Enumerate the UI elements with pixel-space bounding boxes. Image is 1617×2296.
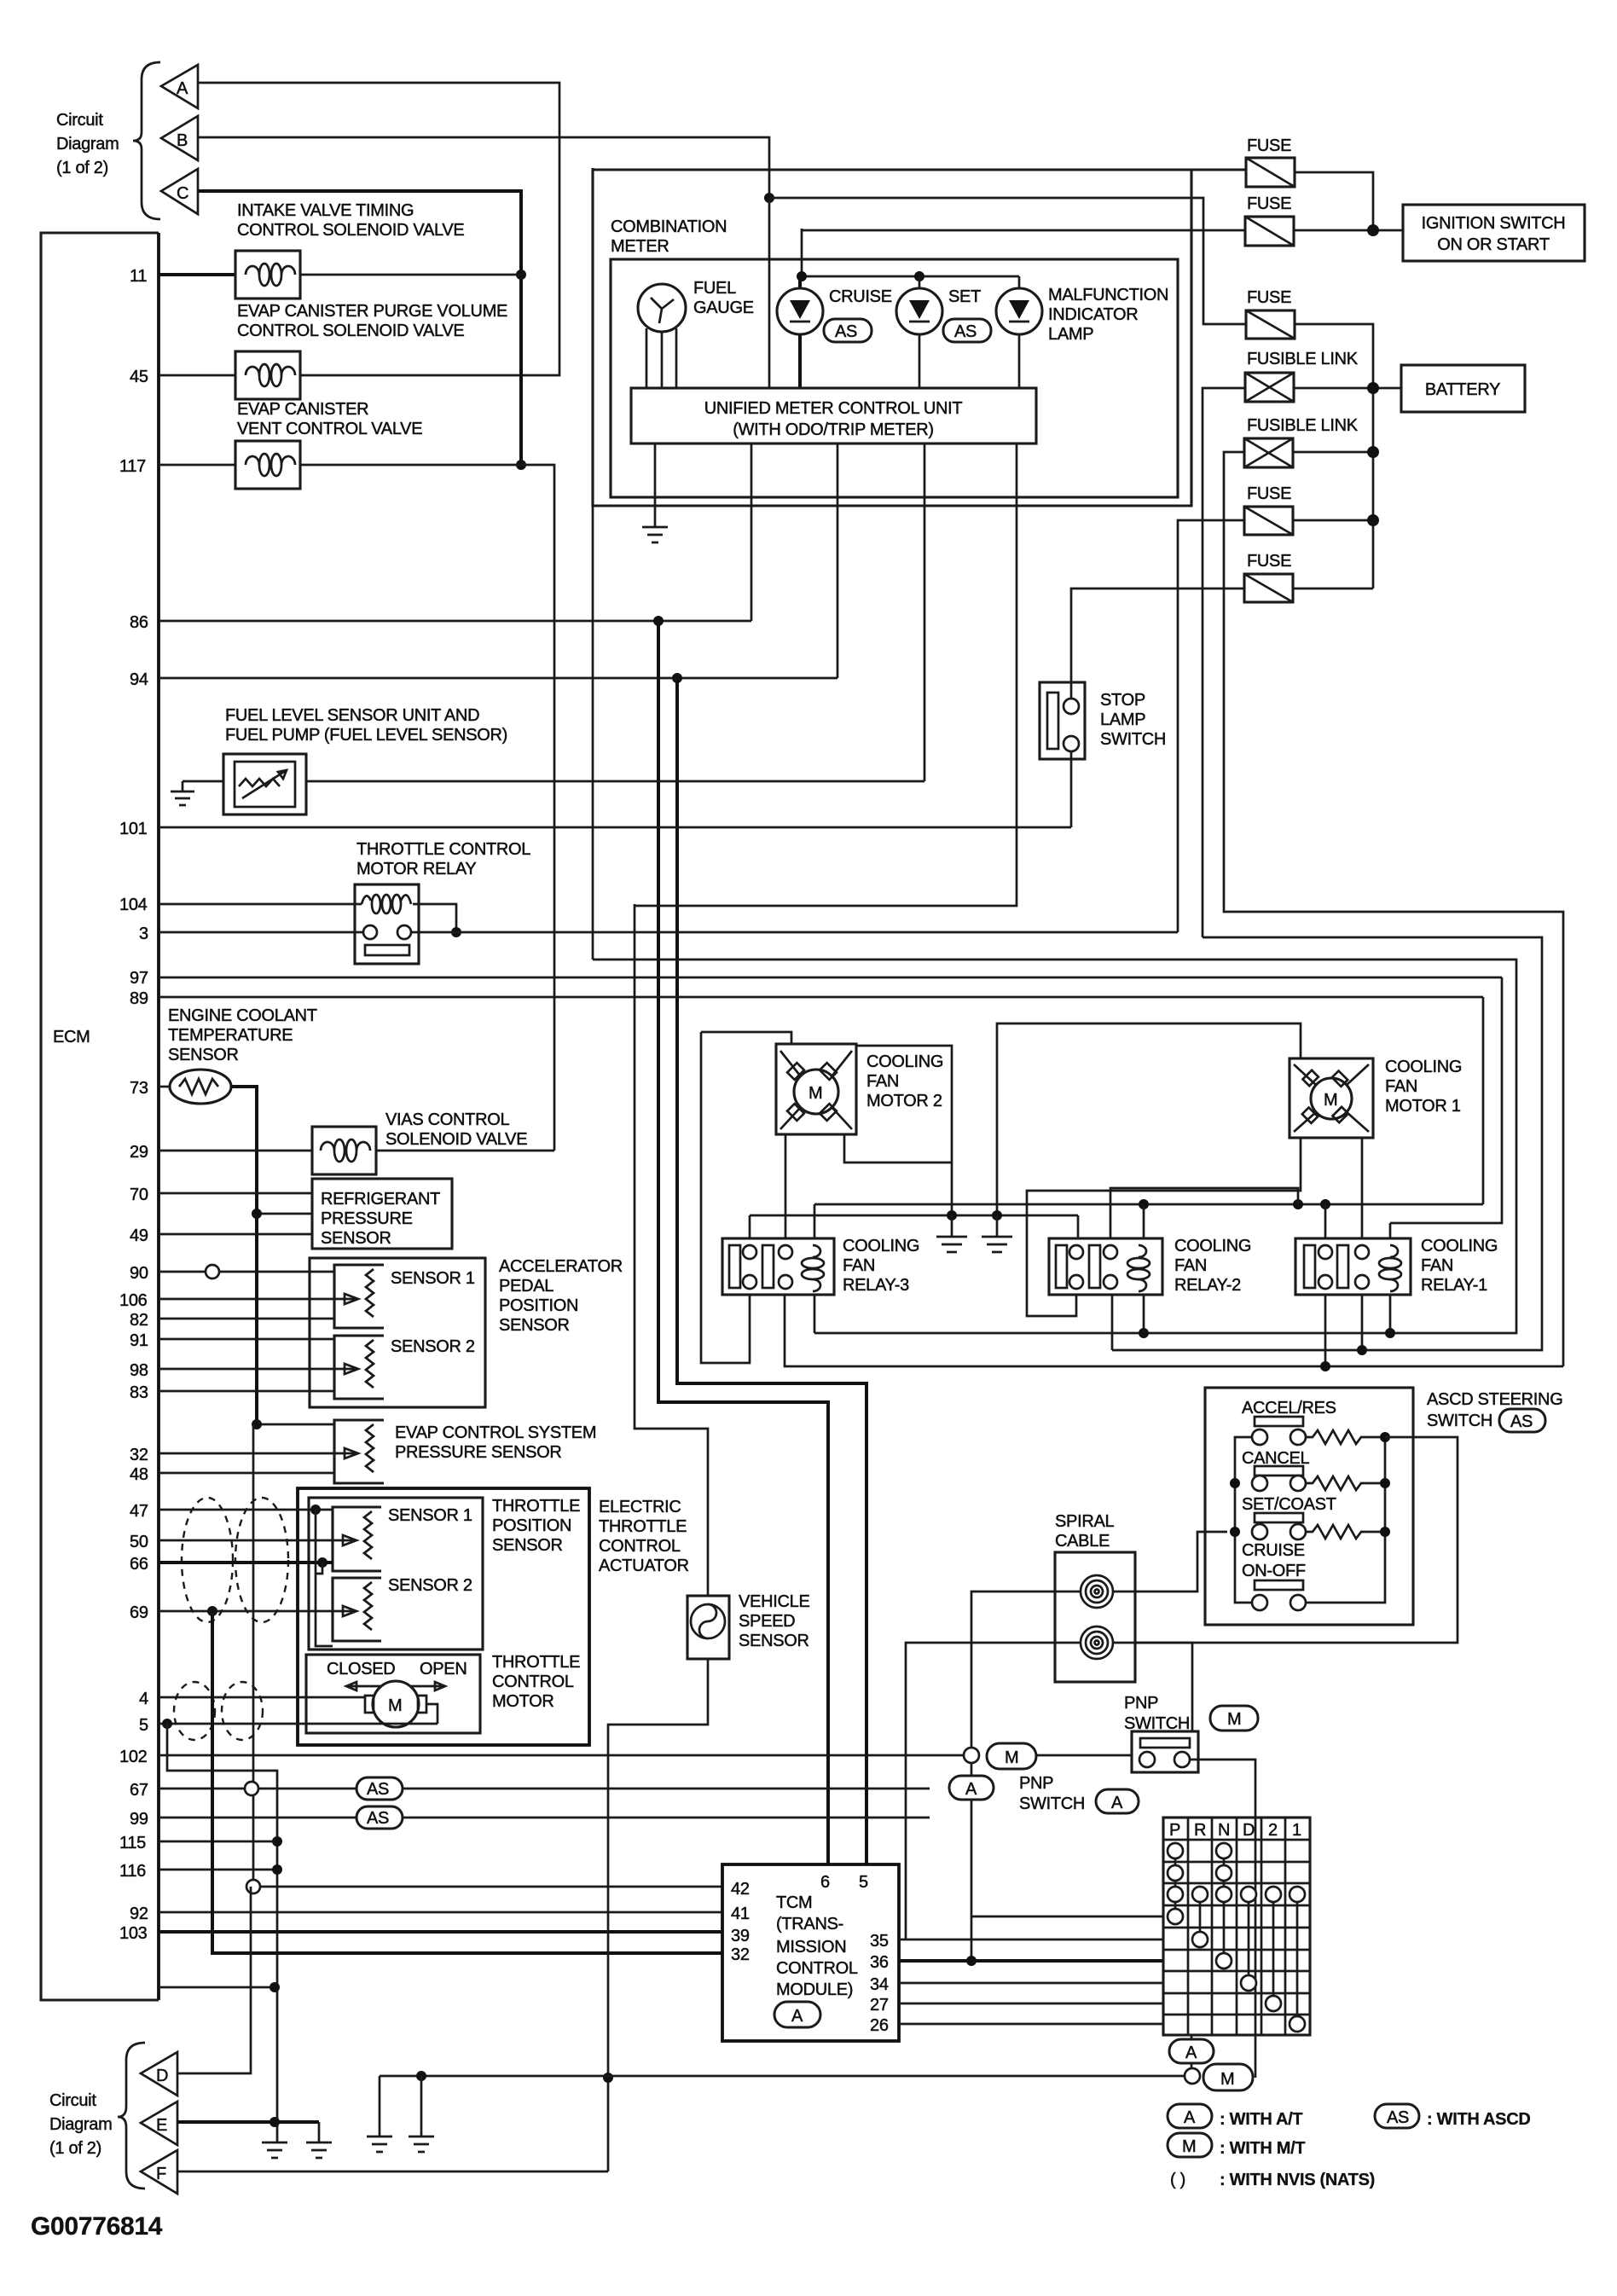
svg-text:49: 49 xyxy=(130,1226,148,1245)
relay2 output to bus xyxy=(1111,1295,1114,1350)
svg-text:B: B xyxy=(177,131,188,150)
wire: fuse2 out xyxy=(1294,229,1403,232)
svg-text:ENGINE COOLANT: ENGINE COOLANT xyxy=(168,1006,317,1025)
wire: fuse3 out to battery bus xyxy=(1295,324,1373,588)
connector triangle D xyxy=(141,2052,177,2096)
svg-text:POSITION: POSITION xyxy=(492,1516,571,1535)
connector triangle E xyxy=(141,2102,177,2145)
wire: A to EVAP purge net xyxy=(198,83,559,375)
wire: spiral2 right to PNP switch M xyxy=(1113,1643,1192,1731)
svg-text:THROTTLE: THROTTLE xyxy=(492,1497,580,1516)
svg-text:102: 102 xyxy=(119,1748,148,1766)
svg-text:M: M xyxy=(1324,1091,1337,1110)
svg-text:29: 29 xyxy=(130,1143,148,1162)
svg-text:A: A xyxy=(177,79,188,98)
svg-text:MOTOR RELAY: MOTOR RELAY xyxy=(356,860,476,878)
svg-text:104: 104 xyxy=(119,896,148,914)
refrigerant pressure sensor xyxy=(312,1179,452,1249)
svg-text:(1 of 2): (1 of 2) xyxy=(49,2139,101,2158)
svg-text:FUSIBLE LINK: FUSIBLE LINK xyxy=(1247,416,1359,435)
svg-text:M: M xyxy=(1182,2137,1196,2156)
wire: pin89 down to relay feed bus xyxy=(1482,997,1485,1204)
svg-text:47: 47 xyxy=(130,1502,148,1521)
svg-text:FUEL: FUEL xyxy=(693,279,736,298)
svg-text:Circuit: Circuit xyxy=(56,111,103,130)
fuse 3 xyxy=(1246,288,1295,339)
svg-text:CONTROL SOLENOID VALVE: CONTROL SOLENOID VALVE xyxy=(237,322,464,340)
svg-text:94: 94 xyxy=(130,670,148,689)
svg-text:CRUISE: CRUISE xyxy=(1242,1541,1305,1560)
svg-text:GAUGE: GAUGE xyxy=(693,299,754,317)
node: B junction at meter vertical xyxy=(764,193,774,203)
grid circles: R column xyxy=(1192,1887,1208,1947)
svg-text:E: E xyxy=(156,2116,167,2135)
svg-text:: WITH NVIS (NATS): : WITH NVIS (NATS) xyxy=(1220,2171,1375,2189)
svg-text:A: A xyxy=(791,2007,803,2026)
svg-text:Diagram: Diagram xyxy=(56,135,119,154)
wire: C distribution vertical xyxy=(198,191,521,465)
second ground symbol xyxy=(982,1210,1012,1252)
svg-text:Circuit: Circuit xyxy=(49,2091,96,2110)
svg-text:ACCEL/RES: ACCEL/RES xyxy=(1242,1399,1336,1418)
shield drain to ground chain xyxy=(162,1719,172,1729)
grid circles: P column xyxy=(1168,1843,1183,1924)
svg-text:SENSOR: SENSOR xyxy=(321,1229,391,1248)
svg-text:ACTUATOR: ACTUATOR xyxy=(599,1557,689,1575)
wire: motor2 to relay3 xyxy=(785,1134,787,1238)
cooling fan motor 2 xyxy=(776,1044,943,1134)
node: ignition junction xyxy=(1367,224,1379,236)
coil control bus from pin97 region xyxy=(593,960,1516,1333)
A/T marker oval above M loop xyxy=(1169,2035,1214,2068)
ground symbol left of relay2 xyxy=(936,1210,967,1252)
pin 66 xyxy=(130,1555,333,1574)
svg-text:SET: SET xyxy=(948,287,981,306)
svg-text:A: A xyxy=(965,1780,977,1799)
svg-text:50: 50 xyxy=(130,1533,148,1551)
svg-text:CABLE: CABLE xyxy=(1055,1532,1110,1551)
EVAP canister vent control valve xyxy=(235,400,521,489)
wire: relay coil return to pin3 row xyxy=(413,904,456,932)
svg-text:91: 91 xyxy=(130,1331,148,1350)
pin 104 xyxy=(119,896,362,914)
pin 47 xyxy=(130,1502,333,1521)
combination meter outer box xyxy=(593,168,1191,506)
svg-text:CONTROL: CONTROL xyxy=(492,1673,574,1691)
svg-text:BATTERY: BATTERY xyxy=(1425,380,1500,399)
svg-text:PRESSURE: PRESSURE xyxy=(321,1209,413,1228)
svg-text:SWITCH: SWITCH xyxy=(1427,1412,1492,1430)
lamp supply bus xyxy=(802,229,1019,276)
svg-text:32: 32 xyxy=(130,1446,148,1464)
svg-text:39: 39 xyxy=(731,1927,750,1945)
svg-text:RELAY-1: RELAY-1 xyxy=(1421,1276,1487,1295)
svg-text:FAN: FAN xyxy=(1421,1256,1453,1275)
svg-text:MODULE): MODULE) xyxy=(776,1980,853,1999)
pin 49 xyxy=(130,1226,312,1245)
svg-text:IGNITION SWITCH: IGNITION SWITCH xyxy=(1422,214,1566,233)
svg-text:CONTROL: CONTROL xyxy=(776,1959,858,1978)
ground symbol 2 (E wire) xyxy=(306,2122,332,2158)
svg-text:PEDAL: PEDAL xyxy=(499,1277,553,1296)
connector triangle B xyxy=(161,116,198,160)
electric throttle control actuator box xyxy=(298,1488,689,1745)
pin 11 xyxy=(130,267,235,286)
cooling fan relay-2 xyxy=(1049,1237,1251,1295)
node: battery junction xyxy=(1367,382,1379,394)
unified meter control unit xyxy=(631,388,1036,444)
svg-text:MOTOR 1: MOTOR 1 xyxy=(1385,1097,1461,1116)
throttle control motor xyxy=(306,1653,580,1733)
svg-text:CRUISE: CRUISE xyxy=(829,287,892,306)
pin 32 xyxy=(130,1446,358,1464)
svg-text:26: 26 xyxy=(870,2016,889,2035)
svg-text:OPEN: OPEN xyxy=(420,1660,467,1679)
svg-text:6: 6 xyxy=(820,1873,830,1892)
svg-text:AS: AS xyxy=(954,322,977,341)
meter top edge wire to fuse 1 xyxy=(593,168,1246,171)
APP sensor 1 xyxy=(334,1265,475,1328)
TCM 42 row with connector xyxy=(246,1880,722,1893)
svg-text:RELAY-3: RELAY-3 xyxy=(843,1276,909,1295)
ground bus between relays xyxy=(750,1215,1078,1217)
pin 3 xyxy=(139,925,363,943)
svg-text:SPIRAL: SPIRAL xyxy=(1055,1512,1115,1531)
svg-text:SET/COAST: SET/COAST xyxy=(1242,1495,1336,1514)
EVAP canister purge volume control solenoid valve xyxy=(235,302,507,399)
pin 116 xyxy=(119,1862,282,1881)
svg-text:SWITCH: SWITCH xyxy=(1019,1794,1085,1813)
wire: motor2 ground loop xyxy=(856,1046,952,1215)
pin 90 xyxy=(130,1264,334,1283)
svg-text:MISSION: MISSION xyxy=(776,1938,846,1957)
connector triangle C xyxy=(161,169,198,214)
cruise lamp xyxy=(777,276,892,388)
wire: B net to FUSE3 xyxy=(769,198,1246,324)
svg-text:36: 36 xyxy=(870,1953,889,1972)
ASCD internal left bus xyxy=(1235,1437,1252,1603)
wire: F to VSS net xyxy=(177,2171,608,2173)
svg-text:41: 41 xyxy=(731,1905,750,1923)
svg-text:: WITH A/T: : WITH A/T xyxy=(1220,2110,1302,2129)
fuel gauge wires to UMCU xyxy=(646,328,676,388)
wire: spiral1 left down to M-net connector xyxy=(971,1592,1081,1748)
wire: B net into UMCU xyxy=(768,198,771,388)
svg-text:PRESSURE SENSOR: PRESSURE SENSOR xyxy=(395,1443,562,1462)
wire: relay contact output to fuse feed xyxy=(411,931,1178,934)
svg-text:M: M xyxy=(1227,1710,1241,1729)
svg-text:TCM: TCM xyxy=(776,1893,812,1912)
pin 5 xyxy=(139,1704,438,1735)
pin 99 with AS xyxy=(130,1806,930,1829)
ground symbol 1 (ECM chain) xyxy=(262,2142,287,2158)
intake valve timing control solenoid valve xyxy=(235,201,521,299)
svg-text:D: D xyxy=(156,2067,168,2085)
relay1 pin drops xyxy=(1324,1204,1327,1238)
svg-text:99: 99 xyxy=(130,1810,148,1829)
svg-text:SENSOR: SENSOR xyxy=(168,1046,239,1064)
svg-text:A: A xyxy=(1111,1794,1123,1812)
sensor ground bus continues down xyxy=(252,1424,255,1886)
ECM bottom tie xyxy=(159,1986,275,1989)
svg-text:45: 45 xyxy=(130,368,148,386)
svg-text:(1 of 2): (1 of 2) xyxy=(56,159,108,177)
svg-text:97: 97 xyxy=(130,969,148,988)
VIAS control solenoid valve xyxy=(312,1110,527,1174)
A oval below xyxy=(949,1763,1163,1916)
fuse 4 xyxy=(1244,484,1293,535)
wire: row 86 branch down to TCM pin 6 xyxy=(658,621,828,1864)
wire: E to ground xyxy=(177,2120,319,2124)
PNP switch (A) grid xyxy=(1163,1818,1310,2035)
svg-text:115: 115 xyxy=(119,1834,146,1852)
svg-text:27: 27 xyxy=(870,1996,889,2015)
svg-text:SENSOR: SENSOR xyxy=(499,1316,570,1335)
UMCU pin down wires xyxy=(751,444,753,621)
svg-text:98: 98 xyxy=(130,1361,148,1380)
relay output return loop xyxy=(785,1295,1563,1366)
svg-text:32: 32 xyxy=(731,1945,750,1964)
stop lamp switch xyxy=(1040,682,1166,759)
ASCD output loop xyxy=(1135,1437,1458,1643)
wire: spiral2 left down to TCM 35 row xyxy=(906,1643,1081,1939)
svg-text:REFRIGERANT: REFRIGERANT xyxy=(321,1190,440,1209)
svg-text:FAN: FAN xyxy=(843,1256,875,1275)
ground symbol 4 xyxy=(409,2071,434,2152)
pin 82 xyxy=(130,1311,334,1330)
svg-text:117: 117 xyxy=(119,457,146,476)
svg-text:EVAP CANISTER: EVAP CANISTER xyxy=(237,400,368,419)
fusible link 1 xyxy=(1245,350,1359,402)
wire: fuse4 out xyxy=(1293,519,1373,522)
svg-text:SENSOR 1: SENSOR 1 xyxy=(391,1269,475,1288)
svg-text:66: 66 xyxy=(130,1555,148,1574)
svg-text:M: M xyxy=(1005,1748,1018,1767)
coil bus dots xyxy=(1139,1328,1149,1338)
wire: B to meter/fuse net xyxy=(198,137,769,198)
svg-text:FAN: FAN xyxy=(1385,1077,1417,1096)
pin 103 xyxy=(119,1924,722,1943)
wire: PNP M to legend M loop xyxy=(1190,1760,1255,2078)
svg-text:92: 92 xyxy=(130,1905,148,1923)
svg-text:COOLING: COOLING xyxy=(1421,1237,1498,1255)
wire: FL2 feed down to outer loop xyxy=(1224,452,1563,1366)
throttle position sensor box xyxy=(309,1497,580,1650)
svg-text:48: 48 xyxy=(130,1465,148,1484)
pin 50 xyxy=(130,1533,356,1551)
svg-text:FUSE: FUSE xyxy=(1247,136,1291,155)
svg-text:73: 73 xyxy=(130,1079,148,1098)
malfunction indicator lamp xyxy=(996,276,1168,388)
wire: sensor mid pin to ground bus xyxy=(257,1213,312,1215)
svg-text:ON OR START: ON OR START xyxy=(1437,235,1550,254)
fuse 2 xyxy=(1245,194,1294,246)
svg-text:TEMPERATURE: TEMPERATURE xyxy=(168,1026,293,1045)
wire: spiral1 to ASCD set/coast row xyxy=(1113,1532,1227,1592)
svg-text:( ): ( ) xyxy=(1170,2171,1185,2189)
wire: row 94 branch down to TCM pin 5 xyxy=(677,678,866,1864)
svg-text:THROTTLE CONTROL: THROTTLE CONTROL xyxy=(356,840,530,859)
connector triangle A xyxy=(161,65,198,108)
svg-text:LAMP: LAMP xyxy=(1100,710,1145,729)
svg-text:G00776814: G00776814 xyxy=(31,2212,163,2241)
cooling fan motor 1 xyxy=(1290,1058,1462,1138)
svg-text:CLOSED: CLOSED xyxy=(327,1660,395,1679)
svg-text:COOLING: COOLING xyxy=(843,1237,919,1255)
grid circles: 2 column xyxy=(1266,1887,1281,2011)
svg-text:FUSE: FUSE xyxy=(1247,288,1291,307)
wire: stop lamp to pin 101 row xyxy=(1070,751,1073,827)
relay1 coil feed from pin 89... xyxy=(1390,977,1502,1223)
svg-text:M: M xyxy=(808,1084,822,1103)
wire: fuse4 feed down xyxy=(1178,520,1244,932)
grid circles: N column xyxy=(1216,1843,1232,1968)
relay2 fused feed xyxy=(1112,937,1542,1350)
svg-text:M: M xyxy=(388,1696,402,1715)
svg-text:116: 116 xyxy=(119,1862,146,1881)
svg-text:AS: AS xyxy=(1510,1412,1533,1431)
svg-text:PNP: PNP xyxy=(1124,1694,1158,1713)
svg-text:THROTTLE: THROTTLE xyxy=(492,1653,580,1672)
wire: fuse5 out xyxy=(1293,588,1373,590)
pin 48 xyxy=(130,1465,334,1484)
svg-text:M: M xyxy=(1220,2070,1234,2089)
svg-text:RELAY-2: RELAY-2 xyxy=(1174,1276,1241,1295)
bottom brace xyxy=(118,2043,145,2189)
label: Circuit Diagram (1 of 2) top xyxy=(56,111,119,177)
ignition switch box xyxy=(1403,205,1585,261)
pin 83 xyxy=(130,1383,334,1402)
ASCD internal right bus xyxy=(1306,1437,1385,1603)
fuse 5 xyxy=(1244,552,1293,602)
svg-text:A: A xyxy=(1185,2044,1197,2062)
meter output line across to sensors feed xyxy=(635,444,1017,906)
svg-text:VIAS CONTROL: VIAS CONTROL xyxy=(385,1110,509,1129)
ground for fuel level sensor xyxy=(171,781,223,805)
svg-text:5: 5 xyxy=(859,1873,868,1892)
M/T net: open circle and M oval on pin102 row xyxy=(964,1743,1132,1769)
wire: lamp feed to fuse2 xyxy=(802,229,1245,232)
svg-text:COOLING: COOLING xyxy=(1174,1237,1251,1255)
svg-text:COOLING: COOLING xyxy=(866,1052,943,1071)
CRUISE ON-OFF switch xyxy=(1242,1541,1306,1610)
svg-text:MALFUNCTION: MALFUNCTION xyxy=(1048,286,1168,304)
svg-text:103: 103 xyxy=(119,1924,148,1943)
pin 94 xyxy=(130,670,837,689)
svg-text:ECM: ECM xyxy=(53,1028,90,1047)
svg-text:101: 101 xyxy=(119,820,148,838)
svg-text:D: D xyxy=(1243,1821,1255,1840)
svg-text:COOLING: COOLING xyxy=(1385,1058,1462,1076)
pin 67 with AS xyxy=(130,1777,930,1800)
svg-text:FAN: FAN xyxy=(1174,1256,1207,1275)
pin 73 xyxy=(130,1079,170,1098)
svg-text:EVAP CANISTER PURGE VOLUME: EVAP CANISTER PURGE VOLUME xyxy=(237,302,507,321)
svg-text:35: 35 xyxy=(870,1932,889,1951)
wire: FL2 out xyxy=(1293,451,1373,454)
svg-text:SENSOR: SENSOR xyxy=(739,1632,809,1650)
svg-text:ELECTRIC: ELECTRIC xyxy=(599,1498,681,1516)
svg-text:SENSOR 2: SENSOR 2 xyxy=(391,1337,475,1356)
relay top feed bus xyxy=(814,1203,1483,1206)
ACCEL/RES switch xyxy=(1242,1399,1384,1445)
svg-text:STOP: STOP xyxy=(1100,691,1145,710)
svg-text:FUSIBLE LINK: FUSIBLE LINK xyxy=(1247,350,1359,368)
svg-text:PNP: PNP xyxy=(1019,1774,1053,1793)
grid circles: D column xyxy=(1241,1887,1256,1991)
svg-text:INDICATOR: INDICATOR xyxy=(1048,305,1138,324)
pin 89 xyxy=(130,989,1483,1008)
svg-text:SWITCH: SWITCH xyxy=(1100,730,1166,749)
svg-text:VEHICLE: VEHICLE xyxy=(739,1592,810,1611)
svg-text:AS: AS xyxy=(1387,2108,1409,2127)
svg-text:FUEL LEVEL SENSOR UNIT AND: FUEL LEVEL SENSOR UNIT AND xyxy=(225,706,479,725)
label: Circuit Diagram (1 of 2) bottom xyxy=(49,2091,112,2158)
svg-text:5: 5 xyxy=(139,1716,148,1735)
ECM box outline xyxy=(41,233,159,2000)
svg-text:VENT CONTROL VALVE: VENT CONTROL VALVE xyxy=(237,420,422,438)
svg-text:Diagram: Diagram xyxy=(49,2115,112,2134)
svg-text:R: R xyxy=(1194,1821,1206,1840)
brace for A,B,C group xyxy=(133,62,160,219)
svg-text:82: 82 xyxy=(130,1311,148,1330)
wire: vent net down to VIAS output row xyxy=(521,465,554,1151)
pin 101 xyxy=(119,820,1071,838)
TPS sensor 1 xyxy=(333,1506,472,1571)
relay2 coil drops xyxy=(1143,1204,1145,1238)
svg-text:UNIFIED METER CONTROL UNIT: UNIFIED METER CONTROL UNIT xyxy=(704,399,963,418)
CANCEL switch xyxy=(1242,1449,1384,1491)
motor1 feed line xyxy=(997,1023,1301,1215)
legend M loop open circle xyxy=(1185,2068,1200,2084)
wire: fuse5 feed from stop lamp xyxy=(1071,588,1244,699)
pin 92 xyxy=(130,1905,722,1923)
svg-text:2: 2 xyxy=(1268,1821,1278,1840)
throttle control motor relay xyxy=(355,840,530,964)
PNP switch (A) label xyxy=(1019,1774,1139,1813)
fan circuit left loop xyxy=(701,1032,750,1363)
svg-text:4: 4 xyxy=(139,1690,148,1708)
svg-text:69: 69 xyxy=(130,1603,148,1622)
svg-text:N: N xyxy=(1218,1821,1230,1840)
combination meter inner box xyxy=(611,259,1178,497)
svg-text:89: 89 xyxy=(130,989,148,1008)
svg-text:AS: AS xyxy=(835,322,857,341)
ground symbol 3 xyxy=(367,2076,392,2152)
wire: evap sensor top to ground bus xyxy=(257,1423,334,1426)
svg-text:FUEL PUMP (FUEL LEVEL SENSOR): FUEL PUMP (FUEL LEVEL SENSOR) xyxy=(225,726,507,745)
svg-text:CONTROL: CONTROL xyxy=(599,1537,681,1556)
svg-text:CONTROL SOLENOID VALVE: CONTROL SOLENOID VALVE xyxy=(237,221,464,240)
svg-text:THROTTLE: THROTTLE xyxy=(599,1517,687,1536)
svg-text:SPEED: SPEED xyxy=(739,1612,795,1631)
svg-text:ASCD STEERING: ASCD STEERING xyxy=(1427,1390,1562,1409)
grid circles: 1 column xyxy=(1290,1887,1305,2032)
wire: fuse1 out to ignition bus xyxy=(1295,172,1373,230)
svg-text:1: 1 xyxy=(1292,1821,1301,1840)
svg-text:MOTOR: MOTOR xyxy=(492,1692,554,1711)
svg-text:C: C xyxy=(177,184,188,203)
pin 29 xyxy=(130,1143,312,1162)
pin 45 xyxy=(130,368,235,386)
svg-text:90: 90 xyxy=(130,1264,148,1283)
SET/COAST switch xyxy=(1242,1495,1384,1539)
pin 4 xyxy=(139,1690,365,1708)
meter left edge wire continues down xyxy=(592,506,594,960)
svg-text:MOTOR 2: MOTOR 2 xyxy=(866,1092,942,1110)
TPS internal link xyxy=(316,1510,333,1646)
PNP switch (M) xyxy=(1124,1694,1258,1772)
